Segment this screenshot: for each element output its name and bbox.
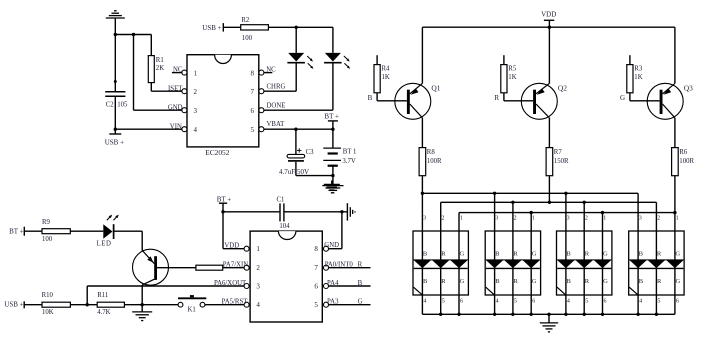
svg-text:6: 6 xyxy=(532,298,535,304)
svg-text:4.7K: 4.7K xyxy=(97,309,110,316)
svg-text:4: 4 xyxy=(567,298,570,304)
svg-text:CHRG: CHRG xyxy=(267,84,286,91)
svg-text:R11: R11 xyxy=(97,292,108,299)
svg-text:150R: 150R xyxy=(554,158,569,165)
svg-text:NC: NC xyxy=(266,67,276,74)
svg-text:R: R xyxy=(513,250,518,257)
svg-text:G: G xyxy=(603,250,608,257)
svg-text:2: 2 xyxy=(194,88,198,96)
svg-text:5: 5 xyxy=(514,298,517,304)
svg-text:B: B xyxy=(368,94,373,102)
svg-text:GND: GND xyxy=(168,105,183,112)
svg-text:G: G xyxy=(460,278,465,285)
svg-text:R9: R9 xyxy=(42,219,51,226)
svg-text:1: 1 xyxy=(532,216,535,222)
svg-text:R7: R7 xyxy=(554,149,563,156)
svg-text:1K: 1K xyxy=(634,74,642,81)
svg-text:2K: 2K xyxy=(156,65,164,72)
svg-text:3: 3 xyxy=(567,216,570,222)
svg-text:R10: R10 xyxy=(42,292,54,299)
svg-text:2: 2 xyxy=(514,216,517,222)
svg-text:3: 3 xyxy=(495,216,498,222)
svg-text:B: B xyxy=(639,278,644,285)
svg-text:G: G xyxy=(532,250,537,257)
svg-text:Q1: Q1 xyxy=(431,83,440,92)
svg-text:2: 2 xyxy=(657,216,660,222)
svg-text:B: B xyxy=(639,250,644,257)
svg-text:6: 6 xyxy=(460,298,463,304)
svg-text:R: R xyxy=(585,278,590,285)
svg-text:GND: GND xyxy=(324,242,339,249)
svg-text:VIN: VIN xyxy=(170,124,182,131)
svg-text:VDD: VDD xyxy=(541,10,556,18)
svg-text:G: G xyxy=(532,278,537,285)
svg-text:4: 4 xyxy=(423,298,426,304)
svg-text:50V: 50V xyxy=(297,168,309,176)
svg-text:1: 1 xyxy=(460,216,463,222)
svg-text:B: B xyxy=(423,278,428,285)
svg-text:R6: R6 xyxy=(679,149,688,156)
svg-text:LED: LED xyxy=(97,240,112,247)
svg-text:BT +: BT + xyxy=(324,113,339,121)
svg-text:B: B xyxy=(566,250,571,257)
svg-text:BT +: BT + xyxy=(217,196,232,204)
svg-text:8: 8 xyxy=(314,245,318,253)
svg-text:BT 1: BT 1 xyxy=(343,149,357,156)
svg-text:R: R xyxy=(514,278,519,285)
svg-text:105: 105 xyxy=(117,102,128,109)
svg-text:B: B xyxy=(495,250,500,257)
svg-text:6: 6 xyxy=(604,298,607,304)
svg-text:1: 1 xyxy=(603,216,606,222)
svg-text:B: B xyxy=(495,278,500,285)
svg-text:100: 100 xyxy=(242,35,253,42)
svg-text:EC2052: EC2052 xyxy=(205,148,230,157)
svg-text:6: 6 xyxy=(314,282,318,290)
svg-text:DONE: DONE xyxy=(267,102,286,109)
svg-text:B: B xyxy=(423,250,428,257)
svg-text:7: 7 xyxy=(251,88,255,96)
svg-text:R: R xyxy=(657,278,662,285)
svg-text:2: 2 xyxy=(256,264,260,272)
svg-text:1: 1 xyxy=(256,245,260,253)
svg-text:R2: R2 xyxy=(241,17,250,24)
svg-text:3: 3 xyxy=(423,216,426,222)
svg-text:10K: 10K xyxy=(42,309,54,316)
svg-text:VBAT: VBAT xyxy=(267,121,286,128)
svg-text:3.7V: 3.7V xyxy=(342,158,355,165)
svg-text:100R: 100R xyxy=(427,158,442,165)
svg-text:R1: R1 xyxy=(156,57,164,64)
svg-text:C2: C2 xyxy=(106,102,115,109)
svg-text:4.7uF: 4.7uF xyxy=(279,168,295,176)
svg-text:Q3: Q3 xyxy=(684,83,693,92)
svg-text:R3: R3 xyxy=(634,66,643,73)
svg-text:8: 8 xyxy=(251,70,255,78)
svg-text:R: R xyxy=(441,250,446,257)
svg-text:3: 3 xyxy=(256,282,260,290)
svg-text:4: 4 xyxy=(639,298,642,304)
svg-text:ISET: ISET xyxy=(168,85,183,92)
svg-text:1: 1 xyxy=(676,216,679,222)
svg-text:G: G xyxy=(675,250,680,257)
svg-text:R: R xyxy=(657,250,662,257)
svg-text:1K: 1K xyxy=(508,74,516,81)
svg-text:K1: K1 xyxy=(188,306,196,313)
svg-text:USB +: USB + xyxy=(105,138,124,146)
svg-text:R: R xyxy=(441,278,446,285)
svg-text:100: 100 xyxy=(42,236,53,243)
svg-text:C1: C1 xyxy=(277,196,285,203)
svg-text:Q2: Q2 xyxy=(558,83,567,92)
svg-text:4: 4 xyxy=(496,298,499,304)
svg-text:R: R xyxy=(585,250,590,257)
svg-text:5: 5 xyxy=(657,298,660,304)
svg-text:5: 5 xyxy=(314,301,318,309)
svg-text:4: 4 xyxy=(194,126,198,134)
svg-text:R4: R4 xyxy=(382,66,391,73)
svg-text:USB +: USB + xyxy=(4,300,23,308)
svg-text:4: 4 xyxy=(256,301,260,309)
svg-text:1: 1 xyxy=(194,70,198,78)
svg-text:3: 3 xyxy=(194,107,198,115)
svg-text:R: R xyxy=(494,94,499,102)
svg-text:C3: C3 xyxy=(306,149,315,156)
svg-text:G: G xyxy=(620,94,625,102)
svg-text:5: 5 xyxy=(251,126,255,134)
svg-text:5: 5 xyxy=(442,298,445,304)
svg-text:104: 104 xyxy=(279,223,290,230)
svg-text:USB +: USB + xyxy=(202,24,221,32)
svg-text:6: 6 xyxy=(251,107,255,115)
svg-text:B: B xyxy=(567,278,572,285)
svg-text:100R: 100R xyxy=(679,158,694,165)
svg-text:R8: R8 xyxy=(427,149,436,156)
svg-text:BT +: BT + xyxy=(9,228,24,236)
svg-text:5: 5 xyxy=(585,298,588,304)
svg-text:6: 6 xyxy=(676,298,679,304)
svg-text:G: G xyxy=(676,278,681,285)
svg-text:G: G xyxy=(460,250,465,257)
svg-text:2: 2 xyxy=(585,216,588,222)
svg-text:2: 2 xyxy=(441,216,444,222)
svg-text:3: 3 xyxy=(639,216,642,222)
svg-text:G: G xyxy=(603,278,608,285)
svg-text:1K: 1K xyxy=(382,74,390,81)
svg-text:R5: R5 xyxy=(508,66,517,73)
svg-text:7: 7 xyxy=(314,264,318,272)
